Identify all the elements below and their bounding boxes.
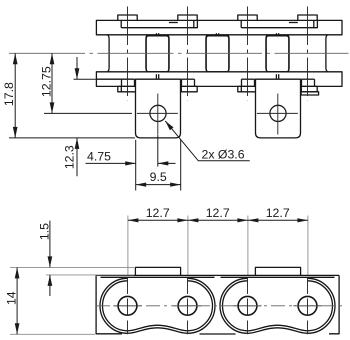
plate end step at P2 (169, 20, 198, 86)
svg-text:17.8: 17.8 (2, 82, 16, 106)
pin head bottom P2 (178, 86, 197, 91)
pin centerline P1 (127, 7, 129, 101)
roller at pin 2 (167, 35, 208, 72)
top band inner plate line (121, 27, 194, 29)
attachment tab 1 (136, 79, 181, 138)
pin crosshair solid segments (114, 305, 322, 307)
svg-text:2x Ø3.6: 2x Ø3.6 (202, 147, 245, 161)
dimension 9.5 (136, 170, 181, 187)
hole 1 crosshair (137, 94, 178, 135)
bottom band inner plate line (96, 78, 134, 80)
pin head top P1 (118, 15, 137, 20)
extension lines 9.5 (136, 135, 181, 191)
attachment plate top edge (96, 274, 339, 276)
extension line tab bottom (9, 137, 135, 139)
link gap window 3 (266, 36, 289, 72)
pin head top P2 (178, 15, 197, 20)
svg-text:9.5: 9.5 (150, 170, 167, 184)
pin axis P4 (307, 278, 309, 335)
plate top edge link 1-2 (101, 276, 215, 278)
pin head bottom P3 (238, 86, 257, 91)
extension line inner plate (74, 78, 97, 80)
svg-text:4.75: 4.75 (87, 149, 111, 163)
pin head top P3 (238, 15, 257, 20)
pin circle P1 (118, 296, 137, 315)
plate butt joint stubs (156, 33, 278, 79)
pin circle P4 (298, 296, 317, 315)
svg-text:12.75: 12.75 (39, 66, 53, 97)
attachment plate right end (329, 275, 339, 333)
dimension 4.75 (86, 149, 176, 165)
pin circle P3 (238, 296, 257, 315)
hole in tab 2 (270, 105, 286, 121)
bend strip tab 2 (255, 267, 300, 275)
plate contour outer link 1-2 (100, 278, 215, 333)
svg-text:1.5: 1.5 (38, 223, 52, 240)
cotter detail P4 (301, 92, 319, 95)
pin circle P2 (178, 296, 197, 315)
pin head top P4 (298, 15, 317, 20)
pin head bottom P1 (118, 86, 137, 91)
hole in tab 1 (150, 105, 166, 121)
plate end step at P1 (121, 20, 134, 86)
extension lines 1.5 and 14 (10, 267, 134, 334)
plate top edge link 3-4 (221, 276, 335, 278)
pin centerline P4 (307, 7, 309, 101)
dimension 12.7 pitch x3 (128, 206, 308, 222)
leader 2x dia 3.6 (165, 121, 250, 161)
svg-text:12.7: 12.7 (206, 206, 230, 220)
plate end step at P3 (241, 20, 254, 86)
roller at pin 1 (107, 35, 148, 72)
bottom plate band (96, 72, 342, 87)
dimension 12.3 (63, 57, 80, 176)
pin axis P1 (127, 278, 129, 335)
attachment plate left end (96, 275, 122, 333)
dimension 17.8 (2, 53, 17, 138)
dimension 1.5 (38, 221, 53, 296)
pin centerline P3 (247, 7, 249, 101)
dimension 12.75 (39, 53, 54, 113)
link gap window 1 (146, 36, 169, 72)
plate contour outer link 3-4 (220, 278, 335, 333)
bend strip tab 1 (135, 267, 180, 275)
plan chain centerline (96, 305, 346, 307)
svg-text:14: 14 (4, 291, 18, 305)
roller at pin 3 (227, 35, 268, 72)
top plate band (96, 20, 342, 34)
attachment tab 2 (256, 79, 301, 138)
pin axis P2 (187, 278, 189, 335)
chain centerline (front) (9, 52, 349, 54)
12.7 extension lines (128, 216, 308, 277)
plate contour inner link 3-4 (222, 281, 332, 331)
pin centerline P2 (187, 7, 189, 101)
svg-text:12.7: 12.7 (146, 206, 170, 220)
head inner edges bottom (121, 86, 301, 91)
svg-text:12.7: 12.7 (266, 206, 290, 220)
link gap window 2 (206, 36, 229, 72)
attachment plate bottom edge at butt joint (200, 333, 236, 335)
hole 2 crosshair (257, 94, 298, 135)
plate contour inner link 1-2 (103, 281, 213, 331)
pin head bottom P4 (298, 86, 317, 91)
plate end step at P4 (289, 20, 318, 86)
extension line hole center (44, 112, 132, 114)
svg-text:12.3: 12.3 (63, 145, 77, 169)
dimension 14 (4, 267, 19, 334)
roller at pin 4 (287, 35, 328, 72)
pin axis P3 (247, 278, 249, 335)
